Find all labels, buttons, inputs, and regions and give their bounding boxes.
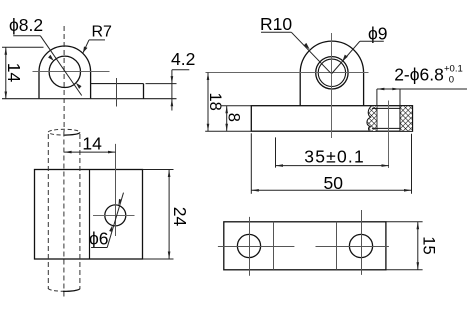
svg-text:14: 14 bbox=[82, 134, 102, 154]
svg-text:ϕ6: ϕ6 bbox=[89, 228, 109, 248]
dimension 2-phi6.8 +0.1/0 bbox=[377, 88, 467, 106]
lug vertical center line bbox=[331, 33, 333, 138]
dimension 14 (top horizontal) bbox=[64, 151, 115, 154]
hole right wall bbox=[399, 106, 401, 131]
leader for phi8.2 bbox=[13, 36, 82, 96]
hole vertical center/extension line bbox=[115, 144, 117, 236]
hole 1 bbox=[237, 234, 260, 257]
shaft bottom solid arc segment bbox=[63, 289, 80, 292]
lug horizontal center line (also 18 extension) bbox=[206, 72, 369, 74]
svg-text:4.2: 4.2 bbox=[171, 49, 195, 69]
dimension 8 bbox=[205, 106, 251, 131]
lug bore circles phi9 bbox=[316, 57, 348, 89]
bottom edge line (extends left as dim extension and right under tab to 4.2 extension) bbox=[2, 98, 177, 100]
hole circle phi6 bbox=[105, 205, 126, 226]
dimension 35±0.1 bbox=[276, 137, 390, 167]
svg-text:+0.1: +0.1 bbox=[444, 63, 463, 74]
4.2 top extension line bbox=[146, 83, 177, 85]
svg-text:50: 50 bbox=[324, 173, 344, 193]
hole left wall bbox=[376, 106, 378, 131]
svg-text:0: 0 bbox=[449, 75, 454, 86]
dimension 14 (left vertical) bbox=[2, 47, 44, 99]
shaft top dashed ellipse bbox=[48, 129, 80, 135]
right hatched piece bbox=[401, 106, 413, 131]
base rectangle bbox=[251, 106, 412, 132]
hole center projection line through tab bbox=[116, 78, 118, 107]
svg-text:8: 8 bbox=[225, 113, 243, 122]
vertical center line (dashed), continues down into bottom view cylinder bbox=[63, 26, 65, 132]
hole 2 bbox=[349, 234, 372, 257]
broken-out section: left hatched piece with wavy break line bbox=[367, 106, 377, 131]
shaft top solid arc segment bbox=[65, 133, 80, 136]
svg-text:R7: R7 bbox=[92, 23, 113, 40]
tab right edge bbox=[143, 84, 145, 99]
groove lines across section bbox=[372, 107, 401, 109]
dashed shaft sides bbox=[47, 134, 49, 289]
hole horizontal center line bbox=[93, 215, 135, 217]
svg-text:2-ϕ6.8: 2-ϕ6.8 bbox=[394, 65, 444, 85]
svg-text:ϕ9: ϕ9 bbox=[368, 23, 388, 43]
hole 2 vertical center line bbox=[361, 210, 363, 275]
horizontal center line segments bbox=[218, 246, 295, 248]
dimension 50 bbox=[251, 133, 411, 194]
shaft bottom dashed arc bbox=[48, 288, 80, 291]
svg-text:24: 24 bbox=[170, 207, 190, 227]
dimension 4.2 (tab height) bbox=[171, 70, 190, 111]
division lines bbox=[273, 222, 275, 270]
leader for R7 bbox=[83, 40, 105, 53]
division line bbox=[89, 170, 91, 260]
svg-text:15: 15 bbox=[420, 236, 438, 254]
lug sides bbox=[300, 41, 363, 106]
dimension 24 (right vertical) bbox=[143, 170, 174, 260]
tab top edge (extends right as 4.2 extension) bbox=[91, 83, 144, 85]
hole center line bbox=[388, 101, 390, 169]
svg-text:ϕ8.2: ϕ8.2 bbox=[9, 15, 43, 35]
hole 1 vertical center line bbox=[249, 217, 251, 276]
dashed shaft center line bbox=[63, 132, 65, 298]
svg-text:35±0.1: 35±0.1 bbox=[304, 147, 365, 167]
dimension 18 (left) bbox=[207, 73, 210, 132]
svg-text:18: 18 bbox=[206, 93, 224, 111]
rectangle body bbox=[35, 170, 143, 260]
svg-text:R10: R10 bbox=[260, 14, 292, 34]
hole circle phi8.2 bbox=[49, 56, 80, 87]
base rectangle bbox=[224, 222, 386, 270]
body outline with R7 rounded top bbox=[39, 46, 91, 99]
horizontal center line bbox=[33, 71, 110, 73]
svg-text:14: 14 bbox=[4, 63, 24, 83]
dimension 15 (right) bbox=[386, 222, 423, 270]
